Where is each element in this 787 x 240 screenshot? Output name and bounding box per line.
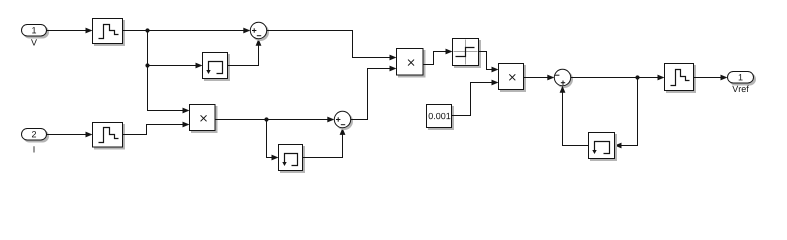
wire J1 down to Product1 input 1 bbox=[148, 31, 190, 114]
wire Memory3 to Add3 plus input bbox=[560, 86, 589, 146]
product Product2 bbox=[397, 49, 426, 78]
wire Product1 to Add2 bbox=[215, 117, 334, 123]
memory Memory3 bbox=[589, 133, 617, 161]
memory Memory2 bbox=[279, 145, 305, 173]
product Product3 bbox=[499, 64, 526, 92]
inport In1 "V" bbox=[22, 25, 49, 46]
wire J2 to Memory1 bbox=[148, 63, 203, 69]
wire Sign to Product3 input 1 bbox=[479, 52, 499, 73]
product Product1 bbox=[190, 105, 218, 133]
outport Out1 "Vref" bbox=[728, 72, 756, 93]
wire Product2 to Sign bbox=[423, 49, 453, 65]
junction node J4 bbox=[635, 75, 639, 79]
inport In2 "I" bbox=[22, 129, 49, 153]
zero-order hold ZOH1 bbox=[93, 19, 125, 46]
wire Memory1 to Add1 minus input bbox=[228, 39, 262, 66]
wire In1 to ZOH1 bbox=[47, 28, 93, 34]
wire Constant to Product3 input 2 bbox=[452, 80, 499, 116]
wire In2 to ZOH2 bbox=[47, 132, 93, 138]
wire ZOH2 to Product1 input 2 bbox=[123, 122, 190, 135]
wire ZOH1 to Add1 bbox=[123, 28, 251, 34]
sum Add2 bbox=[334, 111, 352, 129]
sign block Sign bbox=[453, 39, 481, 68]
wire J3 to Memory2 bbox=[267, 120, 279, 161]
sum Add1 bbox=[250, 22, 268, 40]
memory Memory1 bbox=[203, 53, 230, 81]
constant Constant 0.001 bbox=[427, 105, 454, 130]
zero-order hold ZOH2 bbox=[93, 123, 125, 150]
wire Product3 to Add3 bbox=[524, 75, 555, 81]
wire ZOH3 to Out1 bbox=[694, 75, 728, 81]
sum Add3 bbox=[554, 69, 572, 87]
wire Add3 to ZOH3 bbox=[571, 75, 665, 81]
wire J4 down to Memory3 (flipped) bbox=[615, 78, 638, 149]
junction node J3 bbox=[264, 117, 268, 121]
junction node J2 bbox=[145, 63, 149, 67]
wire Add2 to Product2 input 2 bbox=[351, 66, 397, 120]
zero-order hold ZOH3 bbox=[665, 64, 696, 93]
wire Add1 to Product2 input 1 bbox=[267, 31, 397, 61]
junction node J1 bbox=[145, 28, 149, 32]
wire Memory2 to Add2 minus input bbox=[303, 128, 346, 158]
